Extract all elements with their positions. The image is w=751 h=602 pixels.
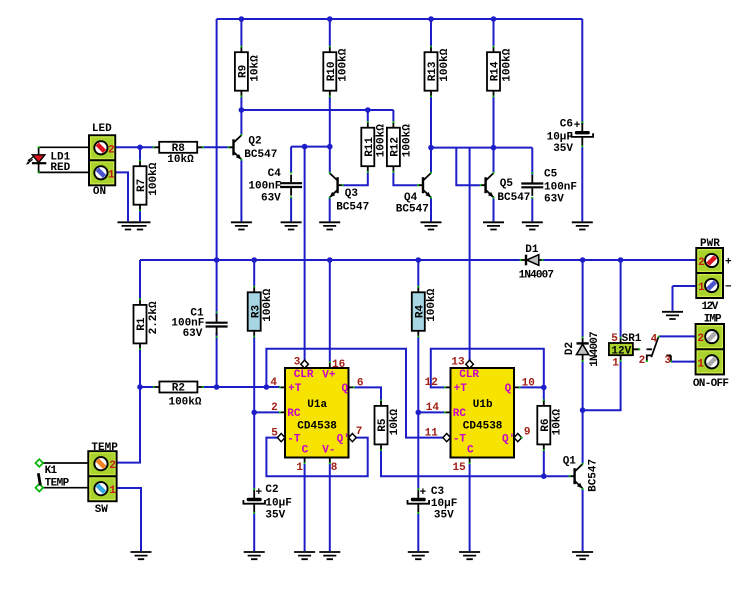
- ground Q4: [421, 222, 442, 229]
- resistor R10: [323, 46, 349, 98]
- node SR1 top: [618, 257, 624, 263]
- svg-text:CLR: CLR: [294, 369, 314, 381]
- node Q5 collector: [491, 145, 497, 151]
- wire R11 to Q3 base: [343, 172, 368, 185]
- svg-text:+T: +T: [454, 383, 468, 395]
- resistor R9: [235, 46, 261, 98]
- wire R3 branch: [253, 260, 255, 489]
- node C4 left: [302, 144, 308, 150]
- svg-text:Q3: Q3: [345, 188, 359, 200]
- node C1-R2: [214, 384, 220, 390]
- wire +12V rail (middle): [140, 260, 696, 299]
- wire U1a +T to U1b -T: [266, 349, 443, 438]
- svg-text:12: 12: [425, 377, 438, 389]
- wire D2 branch: [582, 260, 584, 464]
- transistor Q1 BC547: [563, 455, 600, 492]
- svg-text:BC547: BC547: [336, 201, 369, 213]
- ground LED term1: [118, 222, 139, 229]
- svg-text:14: 14: [426, 402, 440, 414]
- svg-text:Q4: Q4: [404, 192, 418, 204]
- svg-text:R9: R9: [238, 65, 250, 78]
- node R3 top: [251, 257, 257, 263]
- svg-text:1: 1: [698, 282, 705, 294]
- svg-text:BC547: BC547: [244, 149, 277, 161]
- svg-text:+: +: [420, 487, 427, 499]
- node D2-SR1: [580, 407, 586, 413]
- svg-text:TEMP: TEMP: [45, 477, 70, 489]
- ground C5: [522, 222, 543, 229]
- svg-text:9: 9: [524, 426, 531, 438]
- svg-text:8: 8: [331, 462, 338, 474]
- svg-text:K1: K1: [45, 465, 58, 477]
- wire R14 to Q5 collector: [493, 97, 495, 173]
- node R6-Q1 base: [541, 473, 547, 479]
- wire R4 branch: [417, 260, 419, 489]
- svg-text:SR1: SR1: [622, 333, 642, 345]
- capacitor C2: [243, 484, 291, 522]
- svg-text:R12: R12: [390, 137, 402, 157]
- node R3-RC: [251, 410, 257, 416]
- svg-text:2: 2: [639, 355, 646, 367]
- svg-text:3: 3: [664, 355, 671, 367]
- wire C4 to ground: [290, 197, 292, 222]
- svg-text:16: 16: [332, 359, 345, 371]
- svg-text:10µF: 10µF: [431, 498, 457, 510]
- wire Q5 emitter to ground: [493, 198, 495, 222]
- svg-text:2: 2: [697, 333, 704, 345]
- resistor R3: [248, 286, 274, 338]
- ground U1b pin15: [459, 552, 480, 559]
- ground C4: [281, 222, 302, 229]
- svg-text:1: 1: [296, 462, 303, 474]
- svg-text:100kΩ: 100kΩ: [439, 48, 451, 81]
- capacitor C1: [171, 308, 227, 341]
- svg-text:C5: C5: [544, 169, 558, 181]
- resistor R2: [153, 382, 204, 409]
- svg-text:R7: R7: [136, 179, 148, 192]
- node +T U1a: [264, 384, 270, 390]
- wire U1a pin16 branch: [329, 260, 331, 362]
- resistor R12: [387, 121, 413, 173]
- ground Q1: [572, 552, 593, 559]
- resistor R4: [412, 286, 438, 338]
- svg-text:10µF: 10µF: [265, 498, 291, 510]
- wire SR1 coil branch: [583, 260, 621, 410]
- svg-text:C2: C2: [265, 484, 278, 496]
- svg-text:12V: 12V: [702, 301, 719, 313]
- node V+ U1a: [327, 257, 333, 263]
- svg-text:R1: R1: [136, 317, 148, 331]
- svg-text:10kΩ: 10kΩ: [167, 154, 194, 166]
- svg-text:BC547: BC547: [396, 204, 429, 216]
- svg-text:ON: ON: [93, 186, 106, 198]
- svg-text:10: 10: [522, 377, 535, 389]
- wire R14 top stub: [493, 19, 495, 47]
- ground C2: [244, 552, 265, 559]
- svg-text:4: 4: [651, 333, 658, 345]
- svg-text:C6: C6: [560, 119, 573, 131]
- svg-text:RC: RC: [287, 408, 301, 420]
- svg-text:2.2kΩ: 2.2kΩ: [148, 301, 160, 334]
- svg-text:100nF: 100nF: [544, 181, 577, 193]
- wire C4 node to U1a pin3: [304, 147, 306, 360]
- wire C3 to ground: [417, 513, 419, 551]
- wire R13 top stub: [430, 19, 432, 47]
- node LED-R7-R8: [137, 145, 143, 151]
- svg-text:C: C: [467, 445, 474, 457]
- transistor Q4 BC547: [396, 172, 432, 216]
- svg-text:R13: R13: [427, 61, 439, 81]
- svg-text:2: 2: [108, 144, 115, 156]
- svg-text:5: 5: [611, 333, 618, 345]
- svg-text:100kΩ: 100kΩ: [376, 124, 388, 157]
- node Q4 collector: [428, 145, 434, 151]
- svg-text:C: C: [302, 445, 309, 457]
- svg-text:10kΩ: 10kΩ: [552, 409, 564, 436]
- wire C1 branch: [216, 260, 218, 387]
- wire R13 to Q4 collector: [430, 97, 432, 173]
- IC U1a CD4538: [270, 356, 363, 474]
- ground C6: [572, 222, 593, 229]
- svg-text:V-: V-: [322, 445, 335, 457]
- node C1 top: [214, 257, 220, 263]
- wire relay pin3 to IMP: [671, 361, 696, 363]
- wire Q4 row to U1b pin13: [469, 148, 471, 360]
- svg-text:RC: RC: [453, 408, 467, 420]
- svg-text:+: +: [725, 256, 732, 268]
- svg-text:100nF: 100nF: [248, 181, 281, 193]
- svg-text:100kΩ: 100kΩ: [426, 288, 438, 321]
- node R13 top: [428, 16, 434, 22]
- switch K1 TEMP: [35, 459, 88, 491]
- svg-text:13: 13: [451, 356, 465, 368]
- svg-text:100kΩ: 100kΩ: [148, 162, 160, 195]
- svg-text:Q: Q: [505, 383, 512, 395]
- svg-text:12V: 12V: [611, 346, 631, 358]
- ground PWR: [662, 312, 683, 319]
- capacitor C4: [248, 168, 302, 204]
- svg-text:RED: RED: [50, 162, 70, 174]
- node Q U1b-R6: [541, 385, 547, 391]
- wire Q2 emitter to ground: [240, 160, 242, 222]
- svg-text:+: +: [574, 120, 581, 132]
- svg-text:D1: D1: [525, 244, 539, 256]
- node R4 top: [416, 257, 422, 263]
- svg-text:V+: V+: [322, 369, 336, 381]
- svg-text:−: −: [725, 281, 732, 293]
- ground TEMP: [131, 552, 152, 559]
- svg-text:-T: -T: [287, 433, 301, 445]
- wire R12 to Q4 base: [393, 172, 417, 185]
- svg-text:1: 1: [612, 358, 619, 370]
- svg-text:R2: R2: [172, 383, 185, 395]
- wire R8 to Q2 base: [203, 146, 229, 148]
- svg-text:Q': Q': [502, 433, 515, 445]
- wire U1a pin8 to ground: [329, 464, 331, 551]
- node R11 top: [365, 107, 371, 113]
- svg-text:4: 4: [270, 377, 277, 389]
- svg-text:2: 2: [109, 460, 116, 472]
- ground U1a pin8: [319, 552, 340, 559]
- svg-text:6: 6: [357, 377, 364, 389]
- svg-text:R10: R10: [326, 61, 338, 81]
- svg-text:D2: D2: [564, 342, 576, 355]
- svg-text:100kΩ: 100kΩ: [501, 48, 513, 81]
- svg-text:PWR: PWR: [700, 238, 720, 250]
- wire R6 branch: [543, 387, 545, 476]
- wire R5 to Q1 base: [381, 451, 570, 477]
- svg-text:1: 1: [109, 485, 116, 497]
- svg-text:10µF: 10µF: [547, 131, 573, 143]
- svg-text:35V: 35V: [434, 509, 454, 521]
- svg-text:7: 7: [356, 426, 363, 438]
- svg-text:R3: R3: [250, 305, 262, 319]
- wire U1b pin15 to ground: [469, 464, 471, 551]
- svg-text:1: 1: [697, 358, 704, 370]
- transistor Q5 BC547: [480, 172, 531, 204]
- wire R10 top stub: [329, 19, 331, 47]
- wire U1a pin1 to ground: [304, 464, 306, 551]
- node C4-Q3: [327, 144, 333, 150]
- transistor Q3 BC547: [329, 172, 370, 214]
- wire R9 top stub: [240, 19, 242, 47]
- svg-text:10kΩ: 10kΩ: [389, 409, 401, 436]
- diode D2 1N4007: [564, 332, 601, 367]
- ground Q3: [319, 222, 340, 229]
- svg-text:63V: 63V: [544, 193, 564, 205]
- wire R1 bottom to R2 node: [139, 349, 141, 387]
- svg-text:CD4538: CD4538: [297, 420, 337, 432]
- svg-text:C4: C4: [268, 168, 282, 180]
- resistor R8: [153, 142, 204, 166]
- ground Q5: [483, 222, 504, 229]
- wire C5 to ground: [531, 197, 533, 221]
- svg-text:BC547: BC547: [497, 192, 530, 204]
- connector IMP (screw terminal): [693, 314, 729, 390]
- svg-text:CD4538: CD4538: [463, 420, 503, 432]
- svg-text:U1a: U1a: [307, 399, 327, 411]
- wire LED term2 to R8: [115, 146, 153, 148]
- LED LD1 RED: [26, 146, 89, 174]
- ground Q2: [231, 222, 252, 229]
- svg-text:100kΩ: 100kΩ: [168, 397, 201, 409]
- node Q2 collector: [239, 107, 245, 113]
- wire U1a Q to R5: [354, 387, 381, 401]
- svg-text:1: 1: [108, 169, 115, 181]
- svg-text:2: 2: [698, 257, 705, 269]
- svg-text:R5: R5: [377, 418, 389, 432]
- svg-text:Q5: Q5: [500, 178, 514, 190]
- resistor R13: [425, 46, 451, 98]
- wire Q4 emitter to ground: [430, 198, 432, 222]
- diode D1 1N4007: [519, 244, 554, 281]
- svg-text:63V: 63V: [261, 193, 281, 205]
- svg-text:1N4007: 1N4007: [519, 269, 554, 281]
- node R14 top: [491, 16, 497, 22]
- ground R7: [130, 222, 151, 229]
- svg-text:CLR: CLR: [459, 369, 479, 381]
- svg-text:2: 2: [271, 402, 278, 414]
- wire R9-R11-R12 rail: [241, 97, 393, 136]
- svg-text:R11: R11: [364, 137, 376, 157]
- resistor R5: [375, 399, 401, 451]
- svg-text:R4: R4: [415, 305, 427, 319]
- wire C4 node: [291, 147, 330, 173]
- svg-text:35V: 35V: [553, 143, 573, 155]
- relay coil SR1 12V: [609, 333, 642, 370]
- svg-text:ON-OFF: ON-OFF: [693, 378, 729, 390]
- ground C3: [408, 552, 429, 559]
- node R9 top: [239, 16, 245, 22]
- svg-text:35V: 35V: [265, 510, 285, 522]
- svg-text:+: +: [255, 487, 262, 499]
- capacitor C3: [408, 486, 458, 521]
- wire C6 to ground: [581, 147, 583, 221]
- svg-text:Q: Q: [342, 383, 349, 395]
- resistor R7: [134, 160, 160, 212]
- wire relay pin4 to IMP: [659, 335, 696, 337]
- wire top +V rail: [217, 19, 583, 260]
- capacitor C6: [547, 119, 594, 156]
- svg-text:Q2: Q2: [248, 136, 261, 148]
- node R4-RC: [416, 410, 422, 416]
- wire TEMP term1 to ground: [117, 488, 141, 551]
- wire TEMP term2 up: [117, 387, 140, 463]
- svg-text:IMP: IMP: [704, 314, 722, 326]
- wire R2 row: [140, 386, 280, 388]
- wire R3 to U1a pin2: [254, 411, 280, 413]
- IC U1b CD4538: [425, 356, 535, 474]
- svg-text:Q': Q': [337, 433, 350, 445]
- resistor R6: [537, 399, 563, 451]
- svg-text:TEMP: TEMP: [91, 442, 118, 454]
- wire U1b Q to +T loop: [431, 349, 544, 388]
- svg-text:BC547: BC547: [588, 459, 600, 492]
- svg-text:R14: R14: [490, 61, 502, 81]
- svg-text:-T: -T: [453, 433, 467, 445]
- connector PWR (screw terminal): [696, 238, 732, 313]
- svg-text:100kΩ: 100kΩ: [262, 288, 274, 321]
- svg-text:U1b: U1b: [473, 399, 493, 411]
- svg-text:63V: 63V: [183, 328, 203, 340]
- svg-text:100kΩ: 100kΩ: [338, 48, 350, 81]
- svg-text:Q1: Q1: [563, 455, 577, 467]
- node D2 top: [580, 257, 586, 263]
- connector LED (screw terminal X2): [89, 123, 115, 198]
- wire Q4 collector row to C5: [431, 148, 532, 186]
- svg-text:+T: +T: [288, 383, 302, 395]
- capacitor C5: [521, 169, 577, 206]
- svg-text:5: 5: [271, 427, 278, 439]
- resistor R11: [361, 121, 387, 173]
- wire C2 to ground: [253, 513, 255, 551]
- node R10 top: [327, 16, 333, 22]
- resistor R1: [134, 298, 160, 350]
- resistor R14: [487, 46, 513, 98]
- svg-text:1N4007: 1N4007: [589, 332, 601, 367]
- svg-text:15: 15: [452, 462, 466, 474]
- node R1-R2: [137, 384, 143, 390]
- wire R10 to Q3 collector: [329, 97, 331, 173]
- wire R7 drop: [139, 147, 141, 221]
- transistor Q2 BC547: [228, 134, 278, 161]
- wire Q3 emitter to ground: [329, 198, 331, 222]
- svg-text:R6: R6: [540, 418, 552, 431]
- wire U1a Qbar to -T loop: [266, 438, 367, 477]
- relay contact SR1: [639, 333, 672, 367]
- svg-text:C3: C3: [431, 486, 445, 498]
- svg-text:SW: SW: [95, 504, 109, 516]
- ground U1a pin1: [294, 552, 315, 559]
- wire PWR term1 to ground: [673, 286, 697, 311]
- svg-text:3: 3: [294, 356, 301, 368]
- svg-text:LED: LED: [92, 123, 112, 135]
- connector TEMP (screw terminal): [88, 442, 118, 516]
- svg-text:10kΩ: 10kΩ: [249, 55, 261, 82]
- svg-text:11: 11: [425, 427, 439, 439]
- svg-text:100kΩ: 100kΩ: [401, 124, 413, 157]
- wire R4 to U1b pin14: [418, 411, 444, 413]
- wire LED term1 to ground: [115, 172, 128, 221]
- wire Q1 emitter to ground: [582, 489, 584, 551]
